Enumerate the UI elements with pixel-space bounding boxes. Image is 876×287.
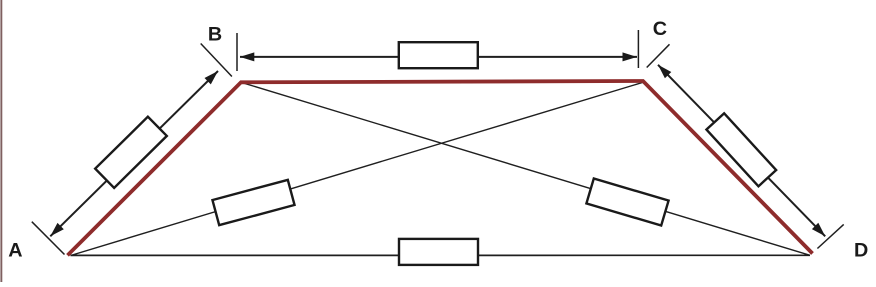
svg-text:D: D <box>854 239 868 261</box>
svg-text:A: A <box>8 239 22 261</box>
svg-text:C: C <box>653 18 667 40</box>
svg-text:B: B <box>208 24 222 46</box>
